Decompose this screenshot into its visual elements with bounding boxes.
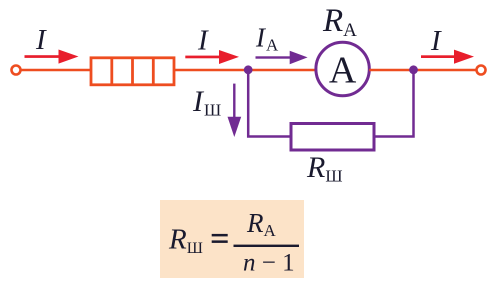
current arrow I (middle) <box>185 50 239 64</box>
svg-text:A: A <box>329 50 357 92</box>
svg-text:I: I <box>197 24 209 56</box>
svg-text:IШ: IШ <box>192 85 221 120</box>
current arrow I_A <box>256 51 308 64</box>
wire <box>174 69 316 72</box>
node A (left junction) <box>244 65 253 74</box>
right terminal <box>477 66 486 75</box>
left terminal <box>12 66 21 75</box>
svg-text:I: I <box>35 24 47 56</box>
svg-text:IA: IA <box>255 23 279 55</box>
wire (shunt branch, left leg) <box>248 70 291 137</box>
wire <box>21 69 91 72</box>
resistor R_Ш (shunt) <box>291 124 374 151</box>
current arrow I_sh <box>228 84 242 137</box>
node B (right junction) <box>409 65 418 74</box>
current arrow I (left) <box>25 50 79 64</box>
svg-text:n − 1: n − 1 <box>243 250 295 277</box>
formula box <box>160 200 304 278</box>
wire (shunt branch, right leg) <box>374 70 414 137</box>
svg-text:RШ: RШ <box>306 151 342 186</box>
current arrow I (right) <box>421 50 474 64</box>
wire <box>369 69 476 72</box>
svg-text:I: I <box>430 25 442 57</box>
ammeter U1 <box>316 42 369 95</box>
svg-text:RA: RA <box>322 3 357 41</box>
formula R_Ш = R_A/(n-1) <box>168 208 299 276</box>
resistor (4-segment box) <box>91 58 174 85</box>
